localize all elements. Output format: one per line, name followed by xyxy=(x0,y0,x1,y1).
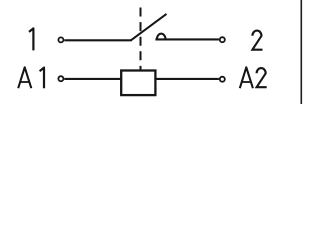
switch contact blade (moving contact) xyxy=(131,14,167,40)
terminal node A1 (open circle) xyxy=(58,76,63,81)
fixed contact arc xyxy=(157,34,166,40)
wire from fixed contact to terminal 2 xyxy=(155,38,219,40)
pin label A2 (coil terminal) xyxy=(240,67,267,88)
mechanical linkage (dashed actuator line to coil) xyxy=(140,8,142,71)
wire from terminal A1 to coil xyxy=(64,78,121,80)
wire from terminal 1 to contact pivot xyxy=(64,39,132,41)
pin label 1 (contact terminal) xyxy=(29,28,33,50)
pin label A1 (coil terminal) xyxy=(18,67,44,88)
wire from coil to terminal A2 xyxy=(157,78,219,80)
pin label 2 (contact terminal) xyxy=(252,31,262,50)
table cell border (right) xyxy=(300,0,302,104)
terminal node 2 (open circle) xyxy=(220,37,225,42)
terminal node 1 (open circle) xyxy=(58,37,63,42)
terminal node A2 (open circle) xyxy=(220,77,225,82)
coil K1 (rectangle) xyxy=(121,71,155,96)
